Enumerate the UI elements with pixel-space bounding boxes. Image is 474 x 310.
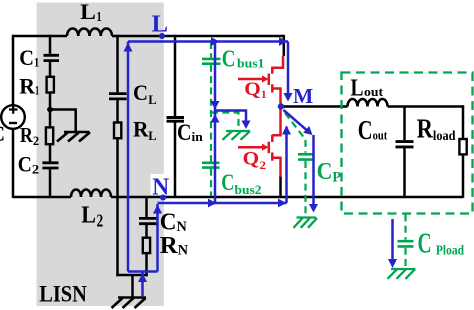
svg-text:C: C — [418, 229, 432, 260]
capacitor C2 — [42, 163, 58, 168]
blue branch to mid ground — [215, 111, 246, 121]
wire top right corner down to Q1 — [283, 35, 286, 56]
svg-text:1: 1 — [97, 9, 102, 24]
wire Cin branch — [174, 35, 177, 116]
capacitor CPload — [398, 241, 414, 246]
svg-text:out: out — [373, 127, 388, 142]
inductor L1 — [67, 28, 112, 36]
blue stem to ground — [141, 272, 144, 297]
svg-text:2: 2 — [33, 133, 39, 148]
svg-text:L: L — [148, 92, 157, 107]
dashed CM path M to CP — [285, 113, 306, 153]
blue diagonal M to CP — [284, 110, 307, 130]
wire Cout branch — [403, 107, 406, 141]
blue CP vertical — [312, 135, 315, 204]
resistor Rload — [459, 139, 466, 154]
svg-text:C: C — [133, 80, 148, 105]
blue arrow down (mid) — [211, 101, 220, 110]
blue CPload arrow line — [391, 219, 394, 259]
wire left vertical bottom — [12, 129, 15, 198]
blue arrow right (top bus 2) — [279, 37, 288, 46]
wire CL-RL — [116, 100, 119, 123]
ground (CP, green) — [297, 216, 317, 218]
node L dot — [159, 33, 165, 39]
ground (LISN bottom) — [118, 296, 146, 299]
resistor RN — [143, 238, 150, 253]
svg-text:in: in — [192, 129, 204, 144]
wire R1-R2 — [49, 93, 52, 129]
svg-text:bus1: bus1 — [237, 56, 264, 71]
svg-text:LISN: LISN — [39, 282, 87, 308]
blue top bus — [128, 40, 288, 43]
wire C1 branch top — [49, 35, 52, 54]
node junction dot — [47, 107, 53, 113]
svg-text:1: 1 — [34, 54, 39, 69]
svg-text:C: C — [222, 47, 236, 73]
blue arrow right (bottom bus end) — [278, 199, 287, 208]
wire CN-RN — [145, 225, 148, 238]
ground (LISN tap) — [64, 131, 90, 134]
wire bottom bus — [13, 196, 463, 199]
svg-text:2: 2 — [260, 158, 267, 172]
svg-text:L: L — [351, 76, 364, 102]
node N dot — [160, 195, 166, 201]
wire C2-bus — [49, 169, 52, 198]
svg-text:R: R — [160, 232, 178, 259]
svg-text:N: N — [178, 242, 188, 258]
svg-text:C: C — [317, 159, 333, 185]
wire RN down to join — [145, 253, 148, 276]
svg-text:C: C — [0, 121, 5, 146]
blue arrow right (top bus 1) — [211, 37, 220, 46]
svg-text:1: 1 — [35, 83, 39, 98]
svg-text:N: N — [152, 174, 170, 200]
wire Rload-bus — [462, 154, 465, 198]
resistor RL — [114, 123, 121, 139]
blue arrow down (into M) — [284, 93, 293, 102]
blue arrow up (stem) — [138, 273, 147, 282]
wire M to output — [281, 105, 463, 108]
svg-text:R: R — [417, 114, 434, 144]
LISN shaded box — [37, 3, 164, 307]
wire R2-C2 — [49, 144, 52, 161]
svg-text:Q: Q — [243, 149, 260, 170]
white patch behind N — [151, 174, 165, 195]
wire top bus — [13, 35, 284, 38]
wire RL down to join — [116, 138, 119, 276]
MOSFET Q1 — [238, 56, 283, 107]
blue arrow down (CP ground) — [309, 204, 318, 213]
wire CN branch top — [145, 197, 148, 217]
svg-text:L: L — [152, 11, 168, 38]
inductor Lout — [348, 99, 388, 106]
AC source V1 — [1, 105, 25, 129]
wire left vertical top — [12, 35, 15, 105]
svg-text:M: M — [293, 84, 313, 108]
svg-text:C: C — [358, 114, 373, 145]
wire C1-R1 — [49, 62, 52, 77]
svg-text:P: P — [332, 170, 341, 186]
resistor R2 — [46, 127, 53, 144]
blue corner down to M — [287, 42, 290, 94]
blue loop bottom — [128, 270, 158, 273]
svg-text:L: L — [81, 203, 96, 229]
svg-text:C: C — [18, 152, 32, 177]
blue bottom bus — [158, 202, 287, 205]
dashed CP to ground — [304, 161, 306, 216]
wire Rload branch top — [462, 105, 465, 139]
svg-text:1: 1 — [261, 87, 267, 101]
blue mid vertical (Cbus path) — [214, 42, 217, 204]
blue right loop vertical — [156, 204, 159, 272]
capacitor Cbus1 — [202, 59, 221, 64]
capacitor C1 — [44, 55, 60, 60]
capacitor CN — [139, 218, 157, 223]
blue arrow down (CPload) — [388, 259, 397, 268]
blue arrow up (mid) — [211, 114, 220, 123]
svg-text:C: C — [177, 120, 192, 146]
dashed CPload to ground — [404, 248, 406, 268]
dashed CPload branch — [404, 215, 406, 240]
svg-text:Pload: Pload — [436, 243, 465, 258]
svg-text:C: C — [221, 170, 234, 195]
capacitor CP — [298, 154, 315, 159]
svg-text:load: load — [433, 128, 456, 143]
svg-text:Q: Q — [244, 79, 260, 100]
dashed CM line Cbus vertical — [210, 42, 212, 196]
blue arrow right (bottom bus) — [208, 199, 217, 208]
dashed converter box — [342, 73, 473, 214]
blue DM loop left vertical — [127, 42, 130, 272]
wire Q2 source to bus — [279, 176, 282, 198]
svg-text:2: 2 — [97, 211, 104, 231]
dashed CM branch to mid ground — [211, 113, 239, 130]
capacitor CL — [109, 94, 127, 99]
wire tap to ground — [50, 110, 76, 132]
blue arrow up (left loop top) — [124, 43, 133, 52]
svg-text:R: R — [20, 123, 34, 147]
resistor R1 — [47, 77, 54, 93]
svg-text:C: C — [19, 45, 34, 70]
svg-text:out: out — [364, 84, 384, 99]
wire ground join — [116, 275, 147, 297]
node M dot — [278, 103, 284, 109]
blue arrow up (to M) — [282, 126, 291, 135]
svg-text:R: R — [133, 117, 150, 142]
svg-text:R: R — [19, 74, 35, 99]
blue arrow down (mid ground) — [242, 121, 251, 130]
MOSFET Q2 — [238, 107, 281, 178]
svg-text:L: L — [80, 0, 96, 24]
inductor L2 — [71, 190, 111, 197]
blue arrow diagonal (CP) — [303, 126, 312, 135]
ground (mid, green) — [226, 130, 250, 132]
blue arrow up (right loop) — [153, 205, 162, 214]
svg-text:2: 2 — [32, 162, 39, 177]
svg-text:L: L — [148, 128, 157, 143]
capacitor Cbus2 — [202, 163, 220, 168]
capacitor Cin — [167, 118, 185, 122]
ground (CPload, green) — [391, 268, 416, 270]
wire Cin-bus — [174, 123, 177, 199]
wire Cout-bus — [403, 148, 406, 198]
svg-text:bus2: bus2 — [235, 182, 262, 197]
wire CL branch — [116, 35, 119, 93]
capacitor Cout — [396, 142, 414, 147]
svg-text:N: N — [177, 219, 187, 235]
blue vertical up to M — [285, 127, 288, 204]
